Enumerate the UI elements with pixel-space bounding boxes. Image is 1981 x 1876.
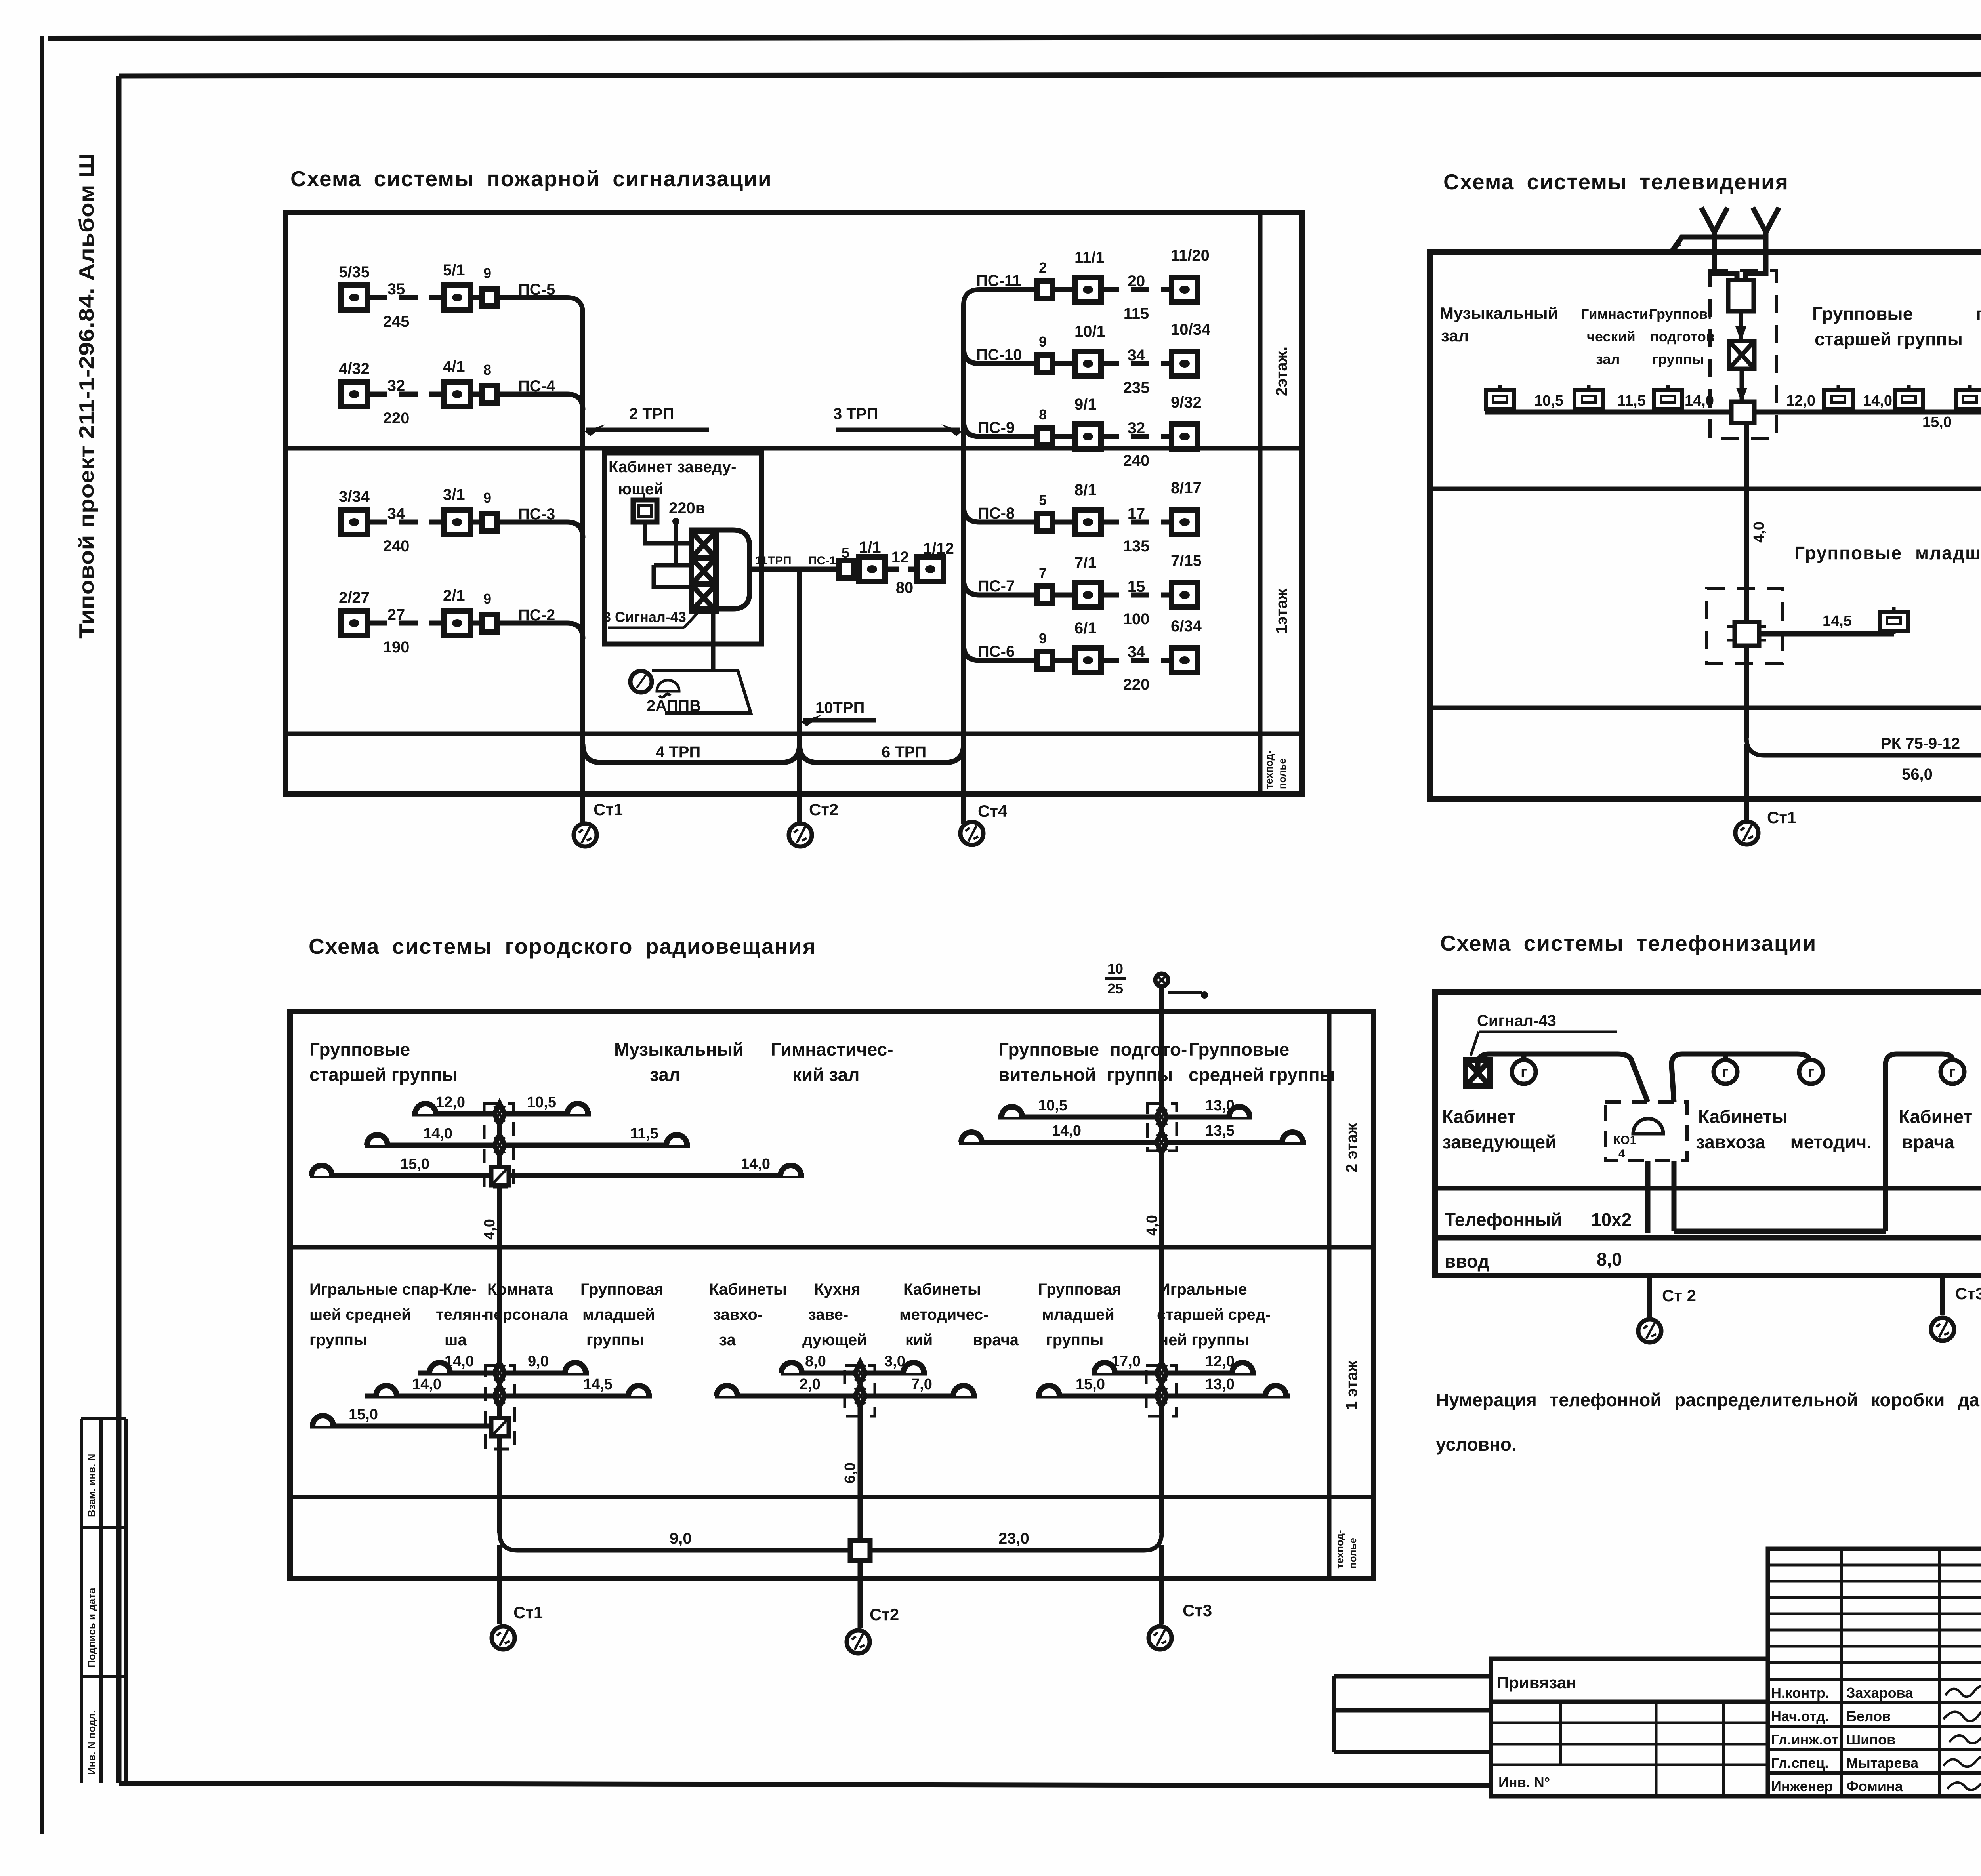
svg-text:15,0: 15,0 xyxy=(400,1156,429,1172)
svg-text:заве-: заве- xyxy=(808,1306,848,1323)
svg-text:Групповые младшей группы: Групповые младшей группы xyxy=(1794,543,1981,563)
svg-text:Схема системы пожарной с: Схема системы пожарной сигнализации xyxy=(290,166,772,191)
2fl left group lines xyxy=(310,1094,804,1176)
svg-text:9/1: 9/1 xyxy=(1074,396,1097,413)
radio bottom bus xyxy=(500,1533,1162,1550)
svg-text:старшей сред-: старшей сред- xyxy=(1157,1306,1271,1323)
fire box divider above cellar xyxy=(286,732,1302,736)
svg-text:полье: полье xyxy=(1347,1538,1359,1569)
radio st1 stub xyxy=(497,1545,502,1624)
svg-text:Подпись и дата: Подпись и дата xyxy=(86,1588,97,1668)
TEL xyxy=(1435,931,1981,1455)
svg-text:6,0: 6,0 xyxy=(842,1462,859,1483)
svg-text:ПС-7: ПС-7 xyxy=(978,578,1015,595)
crossing diamonds left xyxy=(494,1104,505,1124)
svg-text:4/1: 4/1 xyxy=(443,358,465,376)
wire socket to device xyxy=(645,521,691,587)
svg-text:Кабинет заведу-: Кабинет заведу- xyxy=(609,458,736,476)
wire device down xyxy=(711,609,716,670)
1fl right crossing dashed box xyxy=(1146,1365,1176,1416)
TV xyxy=(1430,170,1981,845)
svg-text:115: 115 xyxy=(1124,305,1149,322)
svg-text:завхо-: завхо- xyxy=(713,1306,763,1323)
tel st2 stub xyxy=(1647,1275,1652,1317)
svg-text:15: 15 xyxy=(1128,578,1145,595)
tv bus right xyxy=(1754,410,1981,415)
svg-text:14,5: 14,5 xyxy=(1823,613,1852,629)
fire box label column xyxy=(1258,213,1263,794)
riser St4 line xyxy=(964,290,979,824)
svg-text:17,0: 17,0 xyxy=(1111,1353,1141,1370)
2fl right crossing dashed box xyxy=(1147,1104,1177,1151)
1fl middle group lines xyxy=(715,1353,977,1396)
svg-text:3/1: 3/1 xyxy=(443,486,465,503)
svg-text:235: 235 xyxy=(1123,379,1150,397)
svg-text:Телефонный: Телефонный xyxy=(1445,1209,1562,1230)
head office room box xyxy=(605,453,761,644)
tel st3 stub xyxy=(1940,1275,1945,1315)
tv floor divider 2/1 xyxy=(1430,487,1981,491)
svg-text:14,0: 14,0 xyxy=(445,1353,474,1370)
svg-text:ПС-9: ПС-9 xyxy=(978,419,1015,437)
radio label column xyxy=(1327,1012,1332,1579)
drawing frame left xyxy=(116,76,122,1783)
svg-text:Ст2: Ст2 xyxy=(809,800,838,819)
svg-text:4: 4 xyxy=(1618,1147,1625,1160)
bus junction box xyxy=(850,1540,870,1560)
riser St1 line xyxy=(567,297,583,824)
svg-text:9: 9 xyxy=(483,490,491,506)
svg-text:7: 7 xyxy=(1039,565,1047,581)
privyazan header line xyxy=(1491,1700,1768,1704)
tv outlet st gr 3 xyxy=(1956,385,1981,412)
svg-text:Кабинеты: Кабинеты xyxy=(903,1281,981,1298)
privyazan cols xyxy=(1559,1702,1562,1765)
svg-text:12: 12 xyxy=(891,549,909,566)
loop PS-10 xyxy=(964,321,1211,397)
svg-text:Фомина: Фомина xyxy=(1846,1778,1903,1794)
svg-text:Н.контр.: Н.контр. xyxy=(1771,1685,1829,1701)
tv divider above cellar xyxy=(1430,706,1981,710)
svg-text:8/1: 8/1 xyxy=(1074,481,1097,499)
svg-text:Ст1: Ст1 xyxy=(513,1603,543,1622)
signature table thin rows xyxy=(1768,1565,1981,1662)
wire device output xyxy=(750,567,839,572)
1fl outlet left xyxy=(1880,607,1908,634)
tv trunk from amp1 xyxy=(1744,423,1749,622)
svg-text:9,0: 9,0 xyxy=(528,1353,549,1370)
signal-43 unit stack xyxy=(691,532,716,558)
svg-text:Групповые: Групповые xyxy=(1189,1039,1289,1060)
1fl middle crossing dashed box xyxy=(845,1365,875,1416)
svg-text:Групповая: Групповая xyxy=(1038,1281,1121,1298)
svg-text:Нумерация телефонной распред: Нумерация телефонной распределительной к… xyxy=(1436,1390,1981,1410)
signature table columns xyxy=(1842,1549,1981,1796)
svg-text:15,0: 15,0 xyxy=(349,1406,378,1423)
svg-text:ПС-1: ПС-1 xyxy=(808,554,836,567)
svg-text:Шипов: Шипов xyxy=(1846,1731,1895,1748)
svg-text:10х2: 10х2 xyxy=(1591,1209,1632,1230)
radio mast symbol xyxy=(1155,974,1208,999)
tel bus 2 xyxy=(1672,1054,1811,1102)
svg-text:2 этаж: 2 этаж xyxy=(1343,1123,1361,1172)
phone2 drop xyxy=(1723,1054,1728,1060)
radio riser st3 xyxy=(1159,986,1164,1533)
svg-text:4,0: 4,0 xyxy=(1751,522,1767,543)
FIRE xyxy=(286,166,1302,846)
svg-text:4/32: 4/32 xyxy=(339,360,370,377)
svg-text:3/34: 3/34 xyxy=(339,488,370,505)
svg-text:6/1: 6/1 xyxy=(1074,620,1097,637)
svg-text:ПС-11: ПС-11 xyxy=(976,272,1021,290)
svg-text:34: 34 xyxy=(387,505,405,522)
svg-text:14,0: 14,0 xyxy=(412,1376,441,1393)
svg-text:Инв. N подл.: Инв. N подл. xyxy=(86,1710,97,1775)
svg-text:Ст3: Ст3 xyxy=(1183,1601,1212,1620)
svg-text:4,0: 4,0 xyxy=(481,1219,498,1240)
svg-text:20: 20 xyxy=(1128,273,1145,290)
fire box outline xyxy=(286,213,1302,794)
svg-text:старшей группы: старшей группы xyxy=(309,1064,458,1085)
svg-text:врача: врача xyxy=(1902,1132,1955,1152)
1fl left crossing dashed box xyxy=(485,1365,515,1449)
radio st3 stub xyxy=(1159,1545,1164,1624)
power socket box xyxy=(633,500,657,522)
svg-text:Группов.: Группов. xyxy=(1649,306,1712,322)
svg-text:10,5: 10,5 xyxy=(1038,1097,1067,1114)
svg-text:32: 32 xyxy=(387,377,405,395)
svg-text:группы: группы xyxy=(586,1331,644,1349)
distribution box dashed xyxy=(1605,1102,1687,1161)
radio box outline xyxy=(290,1012,1374,1579)
limiter box left 2fl xyxy=(491,1167,509,1185)
svg-text:8,0: 8,0 xyxy=(1597,1249,1622,1270)
svg-text:Ст2: Ст2 xyxy=(870,1605,899,1624)
svg-text:23,0: 23,0 xyxy=(998,1530,1029,1547)
svg-text:14,5: 14,5 xyxy=(583,1376,613,1393)
svg-text:4,0: 4,0 xyxy=(1144,1215,1160,1236)
svg-text:240: 240 xyxy=(1123,452,1150,469)
svg-text:ПС-8: ПС-8 xyxy=(978,505,1015,522)
radio floor divider xyxy=(290,1245,1374,1250)
svg-text:9: 9 xyxy=(483,265,491,281)
radio divider above cellar xyxy=(290,1495,1374,1499)
svg-text:11/20: 11/20 xyxy=(1171,247,1210,264)
bell circle xyxy=(630,671,652,692)
svg-text:Гимнасти-: Гимнасти- xyxy=(1581,306,1653,322)
outer sheet border top xyxy=(48,36,1981,38)
svg-text:Привязан: Привязан xyxy=(1497,1673,1576,1692)
tv riser st1 stub xyxy=(1744,744,1749,820)
svg-text:младшей: младшей xyxy=(582,1306,655,1323)
limiter box left 1fl xyxy=(491,1418,509,1436)
svg-text:ющей: ющей xyxy=(618,480,664,498)
svg-text:10ТРП: 10ТРП xyxy=(815,699,865,717)
svg-text:Инженер: Инженер xyxy=(1771,1778,1833,1794)
svg-text:техпод-: техпод- xyxy=(1334,1530,1345,1569)
svg-text:Комната: Комната xyxy=(487,1281,553,1298)
svg-text:Гл.спец.: Гл.спец. xyxy=(1771,1755,1828,1771)
svg-text:56,0: 56,0 xyxy=(1902,766,1933,783)
1fl trunk continue xyxy=(1744,646,1749,738)
privyazan rows xyxy=(1491,1722,1768,1724)
svg-text:Ст1: Ст1 xyxy=(594,800,623,819)
phone head office xyxy=(1512,1060,1536,1084)
loop PS-11 xyxy=(976,247,1210,322)
loop PS-5 xyxy=(339,261,567,330)
bottom wire run xyxy=(1674,1229,1886,1234)
svg-text:8,0: 8,0 xyxy=(805,1353,826,1370)
svg-text:9: 9 xyxy=(1039,334,1047,350)
2fl right group lines xyxy=(959,1097,1306,1142)
svg-text:кий зал: кий зал xyxy=(792,1064,859,1085)
svg-text:3 Сигнал-43: 3 Сигнал-43 xyxy=(603,609,686,625)
svg-text:6/34: 6/34 xyxy=(1171,618,1202,635)
privyazan table outline xyxy=(1491,1659,1768,1796)
svg-text:2: 2 xyxy=(1039,259,1047,276)
tel bus 1 xyxy=(1478,1054,1648,1102)
TITLEBLOCK xyxy=(1334,1549,1981,1858)
svg-text:полье: полье xyxy=(1276,758,1288,789)
svg-text:вительной группы: вительной группы xyxy=(998,1064,1173,1085)
loop PS-2 xyxy=(339,587,583,656)
tv outlet muz hall xyxy=(1486,385,1514,412)
svg-text:7/1: 7/1 xyxy=(1074,554,1097,572)
svg-text:младшей: младшей xyxy=(1042,1306,1115,1323)
svg-text:34: 34 xyxy=(1128,347,1145,364)
svg-text:9: 9 xyxy=(483,591,491,607)
loop PS-3 xyxy=(339,486,583,555)
tv outlet st gr 1 xyxy=(1824,385,1853,412)
svg-text:Кабинет: Кабинет xyxy=(1899,1106,1972,1127)
svg-text:100: 100 xyxy=(1123,610,1150,628)
bus 6TRP xyxy=(800,744,964,763)
loop PS-6 xyxy=(964,618,1202,693)
riser St2 line xyxy=(797,569,802,824)
svg-text:Музыкальный: Музыкальный xyxy=(614,1039,744,1060)
svg-text:8: 8 xyxy=(483,362,491,378)
svg-text:2/27: 2/27 xyxy=(339,589,370,606)
svg-text:13,0: 13,0 xyxy=(1205,1376,1235,1393)
svg-text:32: 32 xyxy=(1128,419,1145,437)
svg-text:10,5: 10,5 xyxy=(527,1094,556,1111)
signal-43 unit enclosure xyxy=(689,530,750,609)
radio riser st2 xyxy=(858,1365,863,1540)
svg-text:15,0: 15,0 xyxy=(1922,414,1952,431)
svg-text:12,0: 12,0 xyxy=(436,1094,465,1111)
antenna 1 xyxy=(1701,208,1737,281)
svg-text:27: 27 xyxy=(387,606,405,623)
svg-text:245: 245 xyxy=(383,313,410,330)
power tap dot xyxy=(672,518,679,525)
svg-text:80: 80 xyxy=(896,579,914,597)
svg-text:1/1: 1/1 xyxy=(859,539,881,556)
svg-text:5: 5 xyxy=(1039,492,1047,508)
svg-text:Игральные спар-: Игральные спар- xyxy=(309,1281,444,1298)
svg-text:Взам. инв. N: Взам. инв. N xyxy=(86,1454,97,1517)
left small cells xyxy=(1334,1674,1491,1679)
antenna link wire xyxy=(1673,237,1766,250)
appv enclosure xyxy=(652,670,751,713)
svg-text:4 ТРП: 4 ТРП xyxy=(656,744,700,761)
tv outlet st gr 2 xyxy=(1895,385,1923,412)
1fl wire left outlet xyxy=(1759,631,1894,637)
svg-text:11,5: 11,5 xyxy=(630,1125,658,1142)
svg-text:Мытарева: Мытарева xyxy=(1846,1755,1919,1771)
svg-text:Сигнал-43: Сигнал-43 xyxy=(1477,1012,1556,1030)
svg-text:Кле-: Кле- xyxy=(443,1281,477,1298)
svg-text:7,0: 7,0 xyxy=(911,1376,932,1393)
svg-text:17: 17 xyxy=(1128,505,1145,522)
radio riser st1 xyxy=(497,1114,502,1533)
svg-text:10,5: 10,5 xyxy=(1534,393,1563,409)
svg-text:10: 10 xyxy=(1107,961,1123,977)
loop PS-7 xyxy=(964,552,1202,628)
svg-text:Групповые подгото-: Групповые подгото- xyxy=(998,1039,1187,1060)
tv box outline xyxy=(1430,252,1981,799)
svg-text:КО1: КО1 xyxy=(1613,1134,1636,1147)
phone vracha xyxy=(1941,1060,1964,1084)
svg-text:8/17: 8/17 xyxy=(1171,479,1202,497)
svg-text:Инв. N°: Инв. N° xyxy=(1498,1774,1550,1790)
svg-text:14,0: 14,0 xyxy=(1685,393,1714,409)
phone metodich xyxy=(1799,1060,1823,1084)
amplifier 2fl box xyxy=(1731,402,1754,423)
phone1 drop xyxy=(1521,1054,1527,1060)
tv outlet gym xyxy=(1574,385,1603,412)
crossing diamonds right xyxy=(1157,1107,1167,1127)
svg-text:1 этаж: 1 этаж xyxy=(1343,1360,1361,1410)
svg-text:завхоза методич.: завхоза методич. xyxy=(1696,1132,1872,1152)
svg-text:13,0: 13,0 xyxy=(1205,1097,1235,1114)
svg-text:2/1: 2/1 xyxy=(443,587,465,604)
svg-text:Схема системы городского: Схема системы городского радиовещания xyxy=(309,934,816,959)
svg-text:Ст4: Ст4 xyxy=(978,802,1008,820)
svg-text:7/15: 7/15 xyxy=(1171,552,1202,570)
svg-text:Захарова: Захарова xyxy=(1846,1685,1913,1701)
2fl left crossing dashed box xyxy=(484,1104,513,1187)
signal-43 device xyxy=(1466,1060,1490,1086)
1fl left group lines xyxy=(310,1353,652,1426)
1fl amplifier box xyxy=(1727,622,1766,646)
outer sheet border left xyxy=(40,36,44,1834)
1fl right group lines xyxy=(1036,1353,1290,1396)
signature table name rows xyxy=(1768,1680,1981,1773)
svg-text:2этаж.: 2этаж. xyxy=(1273,347,1290,396)
svg-text:Ст1: Ст1 xyxy=(1767,808,1796,827)
svg-text:дующей: дующей xyxy=(802,1331,867,1349)
svg-text:кий врача: кий врача xyxy=(905,1331,1019,1349)
svg-text:11,5: 11,5 xyxy=(1617,393,1646,409)
svg-text:Белов: Белов xyxy=(1846,1708,1891,1724)
svg-text:Игральные: Игральные xyxy=(1159,1281,1247,1298)
svg-text:135: 135 xyxy=(1123,538,1150,555)
tv bus left xyxy=(1485,410,1731,415)
svg-text:средней группы: средней группы xyxy=(1189,1064,1335,1085)
svg-text:Музыкальный: Музыкальный xyxy=(1440,304,1558,322)
rk cable bus xyxy=(1746,738,1981,755)
svg-text:14,0: 14,0 xyxy=(741,1156,770,1172)
svg-text:9: 9 xyxy=(1039,630,1047,646)
loop PS-9 xyxy=(964,394,1202,469)
svg-text:2 ТРП: 2 ТРП xyxy=(629,405,674,423)
svg-text:240: 240 xyxy=(383,538,410,555)
svg-text:14,0: 14,0 xyxy=(1052,1123,1081,1139)
tel bus 3 xyxy=(1886,1054,1952,1231)
svg-text:Схема системы телевидения: Схема системы телевидения xyxy=(1443,170,1789,194)
svg-text:ней группы: ней группы xyxy=(1159,1331,1249,1349)
svg-text:телян-: телян- xyxy=(436,1306,487,1323)
svg-text:РК 75-9-12: РК 75-9-12 xyxy=(1881,735,1960,752)
svg-text:1этаж: 1этаж xyxy=(1273,588,1290,634)
svg-text:групповые: групповые xyxy=(1976,303,1981,324)
svg-text:шей средней: шей средней xyxy=(309,1306,411,1323)
svg-text:зал: зал xyxy=(1441,326,1469,345)
loop PS-1 xyxy=(839,539,954,597)
tel floor divider xyxy=(1435,1186,1981,1191)
svg-text:3,0: 3,0 xyxy=(884,1353,905,1370)
svg-text:9,0: 9,0 xyxy=(670,1530,692,1547)
drawing frame top xyxy=(119,74,1981,76)
svg-text:техпод-: техпод- xyxy=(1263,750,1275,789)
svg-text:зал: зал xyxy=(650,1064,680,1085)
svg-text:14,0: 14,0 xyxy=(423,1125,452,1142)
svg-text:15,0: 15,0 xyxy=(1076,1376,1105,1393)
trunk 2TRP line xyxy=(586,428,709,432)
svg-text:11/1: 11/1 xyxy=(1074,249,1105,266)
svg-text:34: 34 xyxy=(1128,643,1145,661)
svg-text:Ст 2: Ст 2 xyxy=(1662,1286,1696,1305)
svg-text:9/32: 9/32 xyxy=(1171,394,1202,411)
svg-text:10/1: 10/1 xyxy=(1074,323,1105,340)
svg-text:Кабинеты: Кабинеты xyxy=(1698,1106,1788,1127)
signature table outline xyxy=(1768,1549,1981,1796)
svg-text:14,0: 14,0 xyxy=(1863,393,1892,409)
drawing frame bottom xyxy=(119,1783,1493,1786)
svg-text:группы: группы xyxy=(1652,351,1704,367)
1fl dashed niche left xyxy=(1707,588,1783,663)
svg-text:5/35: 5/35 xyxy=(339,263,370,281)
wire splitter to converter xyxy=(1739,311,1743,340)
svg-text:ПС-6: ПС-6 xyxy=(978,643,1015,660)
svg-text:персонала: персонала xyxy=(484,1306,568,1323)
svg-text:Кабинет: Кабинет xyxy=(1442,1106,1516,1127)
frequency converter box xyxy=(1729,341,1754,369)
tv outlet podgot xyxy=(1654,385,1682,412)
svg-text:Ст3: Ст3 xyxy=(1955,1284,1981,1303)
svg-text:10/34: 10/34 xyxy=(1171,321,1211,338)
svg-text:2,0: 2,0 xyxy=(800,1376,821,1393)
svg-text:подготов: подготов xyxy=(1650,328,1715,345)
svg-text:Схема системы телефонизац: Схема системы телефонизации xyxy=(1440,931,1817,955)
radio st2 stub xyxy=(858,1560,863,1628)
svg-text:6 ТРП: 6 ТРП xyxy=(882,744,926,761)
svg-text:ша: ша xyxy=(445,1331,467,1349)
svg-text:группы: группы xyxy=(1046,1331,1103,1349)
svg-text:Кухня: Кухня xyxy=(814,1281,861,1298)
svg-text:условно.: условно. xyxy=(1436,1434,1517,1455)
svg-text:220: 220 xyxy=(1123,676,1150,693)
svg-text:методичес-: методичес- xyxy=(899,1306,989,1323)
wire converter to amp xyxy=(1740,369,1744,402)
splitter box xyxy=(1728,280,1754,311)
antenna amplifier dashed enclosure xyxy=(1710,271,1776,438)
svg-text:12,0: 12,0 xyxy=(1205,1353,1235,1370)
svg-text:старшей группы: старшей группы xyxy=(1815,329,1963,349)
antenna 2 xyxy=(1746,208,1779,281)
fire box floor divider 2/1 xyxy=(286,446,1302,451)
svg-text:Гимнастичес-: Гимнастичес- xyxy=(771,1039,893,1060)
